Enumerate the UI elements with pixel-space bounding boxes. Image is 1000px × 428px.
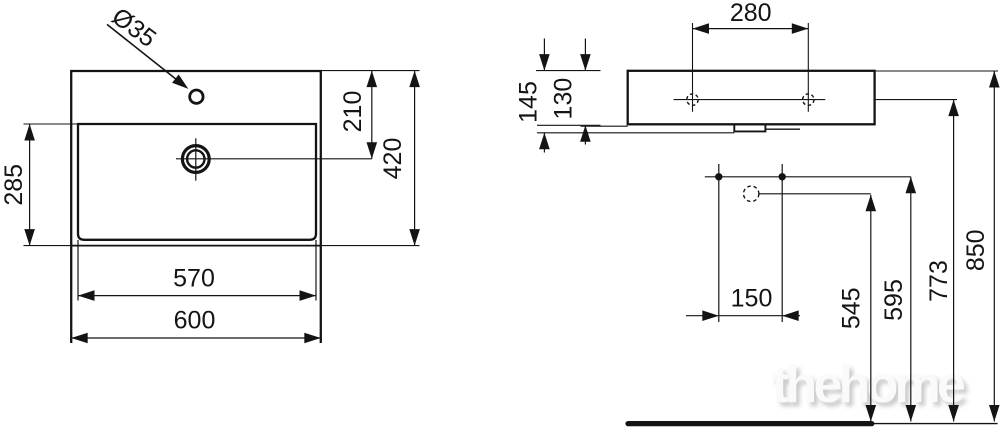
dim 420 (414, 71, 416, 246)
dim 595 (910, 177, 912, 422)
front view bottom edge (71, 245, 321, 247)
145/130 top extension line (536, 70, 601, 72)
dim 285 (29, 124, 31, 246)
svg-text:773: 773 (925, 260, 953, 302)
svg-text:285: 285 (0, 164, 28, 206)
mounting hole left (687, 94, 698, 105)
dim 280 extension lines (692, 23, 694, 112)
mounting hole right (803, 94, 814, 105)
drain inner circle (187, 150, 204, 167)
drain boss (734, 124, 765, 131)
front view outer body (71, 71, 321, 343)
fixing dot left (715, 173, 722, 180)
dim 210 (371, 71, 373, 159)
inner basin (78, 124, 316, 240)
faucet hole (190, 90, 203, 103)
leader line O35 (107, 24, 184, 85)
floor line thin (872, 423, 998, 425)
svg-text:145: 145 (514, 81, 542, 123)
svg-text:130: 130 (549, 78, 577, 120)
dim 850 (993, 71, 995, 422)
floor line thick (628, 421, 872, 426)
drain hole dashed (744, 186, 759, 201)
svg-text:280: 280 (730, 0, 772, 27)
773 top extension line (875, 99, 957, 101)
mounting holes centre line (674, 99, 826, 101)
svg-text:600: 600 (174, 307, 216, 335)
fixing vertical left (718, 164, 720, 322)
dim 570 (78, 295, 316, 297)
dim 773 (953, 100, 955, 422)
fixing vertical right (781, 164, 783, 322)
svg-text:850: 850 (962, 229, 990, 271)
drain crosshair vertical (195, 138, 197, 180)
bottom extension line left (285 dim) (24, 245, 72, 247)
svg-text:420: 420 (379, 138, 407, 180)
wall flange line (581, 125, 628, 127)
basin-top extension line (285 dim) (24, 123, 79, 125)
fixing dots line (705, 176, 911, 178)
dim 570 extension lines (77, 240, 79, 301)
svg-text:150: 150 (731, 285, 773, 313)
lower profile line right of boss (765, 128, 800, 130)
svg-text:210: 210 (339, 91, 367, 133)
dim 545 (870, 195, 872, 422)
dim 280 (693, 28, 809, 30)
svg-text:545: 545 (838, 287, 866, 329)
dim 150 (686, 315, 800, 317)
side profile body (628, 71, 875, 125)
drain hole centre line (545) (759, 193, 871, 195)
145 bottom extension line (537, 132, 734, 134)
bottom extension line right (420 dim) (321, 245, 420, 247)
dim 145 (543, 39, 545, 71)
dim 130 bottom extension line (537, 124, 601, 126)
drain centre line to 210 dim (176, 158, 372, 160)
drain outer circle (182, 146, 209, 173)
fixing dot right (779, 173, 786, 180)
dim 130 (584, 39, 586, 71)
dim 600 (71, 337, 321, 339)
top extension line (210/420) (321, 70, 420, 72)
svg-text:595: 595 (880, 279, 908, 321)
850 top extension line (875, 70, 998, 72)
svg-text:570: 570 (173, 264, 215, 292)
